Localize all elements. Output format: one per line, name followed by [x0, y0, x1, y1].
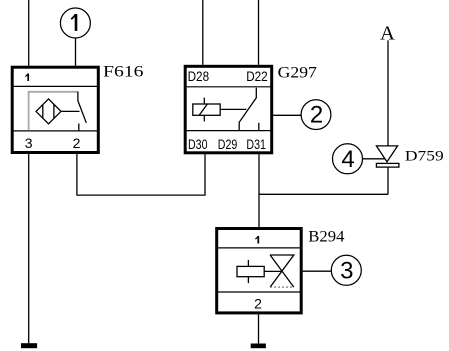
svg-text:D28: D28	[188, 68, 210, 84]
svg-text:B294: B294	[308, 228, 344, 245]
svg-text:D30: D30	[188, 136, 208, 152]
svg-text:D759: D759	[405, 149, 444, 165]
svg-text:G297: G297	[278, 65, 317, 82]
svg-text:D29: D29	[218, 136, 238, 152]
svg-text:A: A	[380, 23, 395, 45]
svg-text:3: 3	[340, 257, 353, 284]
svg-text:2: 2	[254, 295, 262, 311]
svg-text:D31: D31	[246, 136, 266, 152]
svg-text:4: 4	[341, 146, 354, 173]
svg-text:2: 2	[310, 102, 323, 129]
svg-text:D22: D22	[246, 68, 268, 84]
svg-text:2: 2	[73, 135, 81, 151]
svg-text:F616: F616	[103, 64, 144, 81]
svg-text:3: 3	[25, 135, 33, 151]
